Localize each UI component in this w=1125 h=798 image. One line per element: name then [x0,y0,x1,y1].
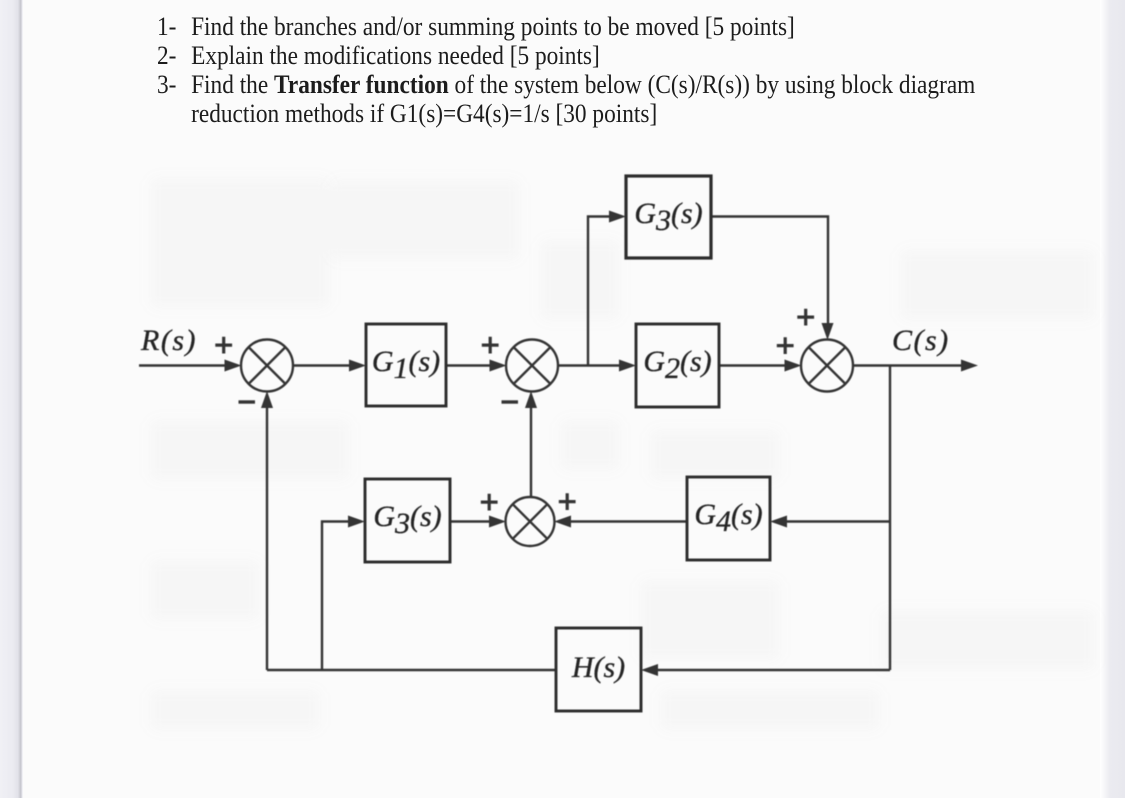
summing junction S2 [506,340,558,392]
wire to G4 input [782,520,890,522]
block G3 top [626,176,711,258]
plus sign at S3 from top [797,309,814,326]
plus sign at S3 from G2 [777,337,794,354]
summing junction S3 [801,340,853,392]
arrowhead into G3 lower [348,516,365,528]
svg-text:C(s): C(s) [892,324,950,357]
plus sign at S4 right [559,493,576,510]
wire S2 to G2 [558,364,625,366]
arrowhead into S1 [225,360,242,372]
arrowhead into G4 [770,516,787,528]
arrowhead down into S3 [822,323,834,340]
wire output branch down [889,366,891,671]
arrowhead into S4 from left [489,516,506,528]
wire G3 top output down to S3 [711,217,828,329]
wire bottom into H [653,669,890,671]
wire H output to left [267,669,556,671]
arrowhead C(s) output [961,360,978,372]
svg-text:G3(s): G3(s) [373,500,441,540]
arrowhead up into S2 [525,391,537,408]
wire branch up to G3 top [588,217,614,366]
wire left feedback up to S1 [266,403,268,670]
svg-text:R(s): R(s) [140,324,197,357]
wire S3 to C(s) output [853,364,965,366]
wire G3 lower to S4 [450,520,494,522]
faint photo mottling patches (decorative) [150,178,330,308]
minus sign at S2 [502,400,519,403]
wire G2 to S3 [719,364,789,366]
svg-text:G3(s): G3(s) [634,197,702,237]
block G3 lower [365,479,450,562]
arrowhead into H [641,664,658,676]
summing junction S1 [241,340,293,392]
arrowhead into G2 [619,360,636,372]
arrowhead into S3 from G2 [785,360,802,372]
block G4 [687,477,770,560]
arrowhead up into S1 [261,391,273,408]
summing junction S4 [506,497,555,546]
wire branch to G3 lower input [322,522,353,671]
svg-text:G4(s): G4(s) [694,498,762,538]
arrowhead into G1 [349,360,366,372]
wire S4 up to S2 [530,403,532,498]
wire S1 to G1 [293,364,355,366]
wire G4 to S4 [566,520,687,522]
problem statement text [157,13,1054,129]
wire R(s) input [139,364,228,366]
left gray gutter strip [0,0,23,798]
block H [556,628,641,711]
svg-text:G1(s): G1(s) [372,345,440,385]
plus sign at S1 input [215,337,232,354]
block G2 [636,324,719,407]
right gray gutter strip [1100,0,1125,798]
svg-text:G2(s): G2(s) [643,345,711,385]
wire G1 to S2 [446,364,494,366]
plus sign at S4 left [481,494,498,511]
arrowhead into S2 [490,360,507,372]
svg-text:H(s): H(s) [571,651,625,684]
arrowhead into G3 top [609,211,626,223]
plus sign at S2 input [482,337,499,354]
block G1 [366,324,446,406]
arrowhead into S4 from right [554,516,571,528]
minus sign at S1 [239,400,256,403]
